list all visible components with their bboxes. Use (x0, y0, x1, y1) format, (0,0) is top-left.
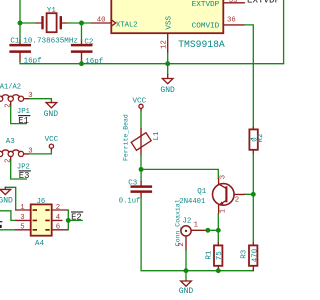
wire C2 bottom to gnd rail (81, 61, 83, 64)
wire COMVID pin to R2 (245, 25, 254, 127)
Q1 pin number 2 (235, 197, 239, 205)
R2 value (251, 137, 260, 142)
label A1/A2 (0, 84, 21, 92)
pin 12 VSS (167, 33, 169, 53)
wire Q1 emitter down (217, 214, 219, 231)
wire from XTAL1 node down to C1 node (19, 0, 21, 23)
svg-text:XTAL2: XTAL2 (116, 21, 138, 29)
IC U1 TMS9918A body (111, 0, 223, 33)
L1 value Ferrite_Bead (123, 114, 130, 161)
svg-text:EXTVDP: EXTVDP (247, 0, 281, 5)
svg-text:C1: C1 (10, 37, 20, 45)
svg-text:A4: A4 (35, 240, 45, 248)
ground (JP1) (44, 102, 59, 119)
svg-text:E2: E2 (71, 212, 82, 222)
resistor R2 (249, 127, 257, 153)
wire JP1 pin3 to GND (29, 99, 51, 102)
local label E1 (18, 116, 30, 126)
svg-text:VSS: VSS (165, 15, 173, 29)
svg-text:Conn_Coaxial: Conn_Coaxial (175, 199, 182, 246)
ground (output) (179, 280, 194, 296)
wire C2 node to pin 40 (82, 22, 92, 24)
J6 pin number 2 (56, 204, 60, 212)
svg-text:16pf: 16pf (85, 58, 104, 66)
svg-text:E3: E3 (19, 171, 30, 181)
svg-text:TMS9918A: TMS9918A (178, 39, 225, 50)
node J2 gnd junction (184, 268, 189, 273)
svg-text:1: 1 (220, 208, 228, 213)
svg-text:470: 470 (251, 248, 259, 262)
wire vcc node down to C3 (140, 169, 142, 181)
svg-text:GND: GND (44, 110, 59, 119)
J6 pin 2 (45, 209, 68, 211)
JP2 reference label (17, 164, 30, 172)
wire J6 pins 2-4-6 (67, 210, 69, 230)
label A3 (6, 138, 16, 146)
wire crystal right to C2 node (67, 22, 81, 24)
pin 35 EXTVDP (223, 2, 244, 4)
svg-text:R1: R1 (206, 250, 214, 260)
pin number 12 (160, 40, 168, 49)
svg-text:3: 3 (20, 214, 24, 222)
capacitor C3 (131, 182, 153, 198)
svg-text:40: 40 (97, 17, 106, 25)
VCC symbol (filter) (132, 98, 146, 112)
svg-text:2: 2 (178, 242, 186, 246)
capacitor C2 (71, 40, 93, 61)
crystal Y1 (36, 13, 67, 32)
wire rail to GND symbol (167, 64, 169, 75)
JP2 pin number 3 (28, 147, 32, 155)
connector J6 body (31, 204, 52, 235)
local label E3 (19, 171, 31, 181)
svg-text:Ferrite_Bead: Ferrite_Bead (123, 114, 130, 161)
global label EXTVDP (247, 0, 281, 5)
svg-text:75: 75 (216, 251, 224, 261)
J6 pin 6 (45, 229, 68, 231)
svg-text:J6: J6 (37, 198, 46, 206)
wire C1 node to crystal left (20, 22, 36, 24)
svg-text:16pf: 16pf (24, 58, 43, 66)
C2 value 16pf (85, 58, 104, 66)
C3 reference label (128, 180, 138, 188)
ground (VSS) (160, 75, 175, 95)
resistor R3 (249, 243, 257, 271)
wire base node down to R3 (252, 194, 254, 243)
svg-text:0.1uf: 0.1uf (119, 198, 141, 206)
R1 value 75 (216, 251, 224, 261)
wire J2 shield to rail (185, 251, 187, 271)
wire C1 node down to C1 (19, 23, 21, 41)
svg-text:0: 0 (251, 137, 259, 142)
C3 value 0.1uf (119, 198, 141, 206)
wire C3 down to bottom rail (141, 198, 253, 271)
VCC symbol (JP2) (45, 136, 59, 151)
svg-text:12: 12 (160, 40, 168, 49)
node VSS gnd junction (165, 61, 170, 66)
pin name COMVID (192, 23, 220, 31)
node R1 gnd junction (216, 268, 221, 273)
J6 pin number 6 (56, 224, 60, 232)
svg-text:3: 3 (220, 175, 228, 179)
J6 value A4 (35, 240, 45, 248)
pin number 36 (227, 16, 236, 24)
J2 pin number 2 (178, 242, 186, 246)
svg-text:E1: E1 (18, 116, 29, 126)
connector J2 Conn_Coaxial (181, 226, 208, 251)
local label E2 (71, 212, 83, 222)
svg-text:5: 5 (20, 224, 24, 232)
svg-text:GND: GND (0, 197, 13, 206)
pin 36 COMVID (223, 24, 244, 26)
svg-text:10.738635MHz: 10.738635MHz (23, 37, 78, 45)
wire right riser to top (283, 0, 285, 64)
svg-text:R3: R3 (240, 249, 248, 259)
node J2 pin1 junction (205, 228, 210, 233)
pin number 35 (229, 0, 238, 5)
R3 value 470 (251, 248, 259, 262)
J2 pin number 1 (194, 221, 199, 229)
pin name XTAL2 (116, 21, 138, 29)
Y1 reference label (47, 7, 57, 15)
node base junction (251, 192, 256, 197)
svg-text:GND: GND (179, 287, 194, 296)
svg-text:Q1: Q1 (197, 188, 207, 196)
J6 pin 4 (45, 220, 62, 222)
pin name EXTVDP (192, 1, 220, 9)
svg-text:J2: J2 (182, 217, 191, 225)
node C1/Y1 junction (18, 21, 23, 26)
node emitter junction (216, 228, 221, 233)
J6 pin number 5 (20, 224, 24, 232)
JP2 pin number 2 (4, 159, 12, 163)
svg-text:GND: GND (160, 86, 175, 95)
wire JP2 pin2 to label E3 (11, 161, 27, 179)
wire rail to bottom GND (185, 271, 187, 281)
ferrite bead L1 (131, 128, 151, 155)
J6 pin 3 (16, 220, 37, 222)
R3 reference label (240, 249, 248, 259)
R1 reference label (206, 250, 214, 260)
J2 value Conn_Coaxial (175, 199, 182, 246)
svg-text:2: 2 (56, 204, 60, 212)
pin name VSS (165, 15, 173, 29)
JP1 pin number 3 (28, 92, 32, 100)
svg-text:2: 2 (235, 197, 239, 205)
svg-text:4: 4 (56, 214, 61, 222)
wire JP2 pin3 to VCC (29, 151, 51, 154)
svg-text:VCC: VCC (45, 136, 59, 144)
C1 value 16pf (24, 58, 43, 66)
svg-text:1: 1 (20, 204, 25, 212)
node C2 gnd junction (79, 61, 84, 66)
wire J2 pin1 to emitter node (208, 229, 219, 231)
JP1 reference label (17, 108, 30, 116)
resistor R1 (214, 243, 222, 271)
svg-text:35: 35 (229, 0, 238, 5)
J6 pin number 1 (20, 204, 25, 212)
C2 reference label (84, 38, 93, 46)
wire R2 to base node (252, 154, 254, 195)
wire to J6 pin5 (0, 229, 16, 231)
svg-text:36: 36 (227, 16, 236, 24)
svg-text:EXTVDP: EXTVDP (192, 1, 220, 9)
wire to J6 pin3 (0, 211, 16, 221)
wire emitter node down to R1 (217, 230, 219, 243)
svg-text:A3: A3 (6, 138, 16, 146)
J6 reference label (37, 198, 46, 206)
svg-text:L1: L1 (153, 131, 161, 141)
wire bead to vcc node (140, 155, 142, 169)
svg-text:C2: C2 (84, 38, 93, 46)
wire base node to Q1 base (244, 193, 253, 195)
svg-text:COMVID: COMVID (192, 23, 220, 31)
svg-text:2N4401: 2N4401 (179, 198, 205, 206)
Q1 pin number 3 (220, 175, 228, 179)
J6 pin 5 (16, 229, 37, 231)
J6 pin number 3 (20, 214, 24, 222)
node C2/Y1 junction (79, 21, 84, 26)
wire VSS pin to rail (167, 53, 169, 64)
gnd rail wire (20, 61, 284, 64)
transistor Q1 2N4401 (213, 179, 245, 214)
J6 pin 1 (16, 209, 37, 211)
wire C2 node down to C2 (81, 23, 83, 41)
local label fragment at left edge (0, 221, 2, 228)
capacitor C1 (9, 40, 31, 61)
wire VCC to ferrite bead (140, 111, 142, 128)
Y1 value 10.738635MHz (23, 37, 78, 45)
Q1 pin number 1 (220, 208, 228, 213)
svg-text:JP1: JP1 (17, 108, 30, 116)
ground (J6) (0, 187, 13, 205)
svg-text:A1/A2: A1/A2 (0, 84, 21, 92)
svg-text:1: 1 (194, 221, 199, 229)
svg-text:C3: C3 (128, 180, 138, 188)
jumper JP2 (0, 150, 29, 161)
svg-text:6: 6 (56, 224, 60, 232)
JP1 pin number 2 (4, 103, 12, 107)
J6 pin number 4 (56, 214, 61, 222)
L1 reference label (153, 131, 161, 141)
pin 40 XTAL2 (92, 20, 116, 26)
wire vcc node to Q1 collector (141, 169, 218, 178)
Q1 value 2N4401 (179, 198, 205, 206)
Q1 reference label (197, 188, 207, 196)
wire J6 pin1 to GND (5, 187, 15, 210)
IC U1 value TMS9918A (178, 39, 225, 50)
J2 reference label (182, 217, 191, 225)
wire E2 stub (68, 219, 82, 221)
C1 reference label (10, 37, 20, 45)
pin number 40 (97, 17, 106, 25)
wire JP1 pin2 to label E1 (11, 106, 27, 124)
jumper JP1 (0, 95, 29, 106)
node vcc filter junction (139, 167, 144, 172)
R2 reference label (257, 133, 265, 142)
svg-text:Y1: Y1 (47, 7, 57, 15)
node J6 pin4 junction (66, 218, 71, 223)
